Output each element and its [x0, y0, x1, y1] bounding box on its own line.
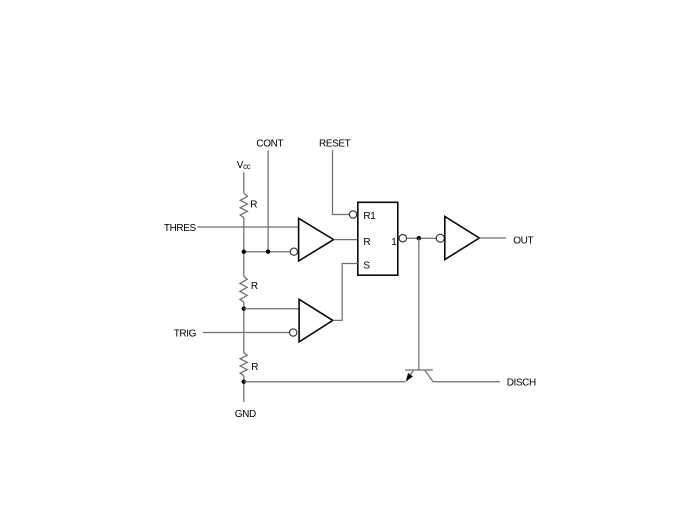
buffer input bubble: [436, 234, 444, 242]
transistor Q1 discharge: [405, 370, 433, 382]
svg-text:Vcc: Vcc: [237, 160, 251, 171]
svg-text:R: R: [251, 362, 258, 373]
op-amp U1 threshold comparator: [299, 218, 334, 261]
svg-text:R: R: [363, 237, 370, 248]
wire comparator1 output: [334, 239, 358, 241]
resistor R2 (middle): [240, 276, 247, 302]
wire DISCH: [433, 381, 500, 383]
resistor R3 (bottom): [240, 353, 247, 376]
wire TRIG input: [203, 332, 290, 334]
flip-flop U3 box: [358, 202, 398, 275]
node junction dot ground rail: [242, 380, 246, 384]
buffer amplifier U4: [445, 216, 480, 259]
svg-text:1: 1: [391, 237, 397, 248]
svg-text:R: R: [250, 200, 257, 211]
svg-text:S: S: [363, 260, 370, 271]
wire Vcc stub: [243, 172, 245, 193]
svg-text:THRES: THRES: [164, 223, 197, 234]
wire comparator2 plus input: [244, 308, 299, 310]
wire control node horizontal: [244, 251, 290, 253]
wire transistor base vertical: [418, 238, 420, 370]
wire OUT: [479, 237, 506, 239]
svg-text:DISCH: DISCH: [507, 378, 536, 389]
reset input bubble: [349, 211, 356, 218]
node junction dot rail-comparator2: [242, 307, 246, 311]
wire comparator2 output to S input: [333, 264, 358, 321]
svg-text:R1: R1: [363, 211, 376, 222]
svg-text:CONT: CONT: [256, 138, 283, 149]
trigger input bubble: [290, 329, 297, 336]
svg-text:OUT: OUT: [513, 236, 533, 247]
comparator inverting input bubble: [290, 248, 297, 255]
wire rail upper segment: [243, 218, 245, 277]
node junction dot CONT: [266, 250, 270, 254]
wire RESET: [333, 150, 350, 214]
op-amp U2 trigger comparator: [299, 299, 333, 342]
svg-text:TRIG: TRIG: [174, 328, 197, 339]
wire flip-flop output to buffer: [407, 237, 437, 239]
svg-text:R: R: [251, 281, 258, 292]
wire CONT vertical: [267, 150, 269, 252]
node junction dot output-base: [417, 236, 421, 240]
node junction dot rail-control: [242, 250, 246, 254]
wire THRES input: [198, 226, 299, 228]
wire ground rail to transistor emitter: [244, 381, 406, 383]
svg-text:GND: GND: [235, 409, 256, 420]
svg-text:RESET: RESET: [319, 138, 351, 149]
wire rail middle segment: [243, 302, 245, 353]
resistor R1 (top): [240, 193, 247, 218]
wire rail lower segment: [243, 376, 245, 402]
flip-flop output bubble: [399, 235, 406, 242]
